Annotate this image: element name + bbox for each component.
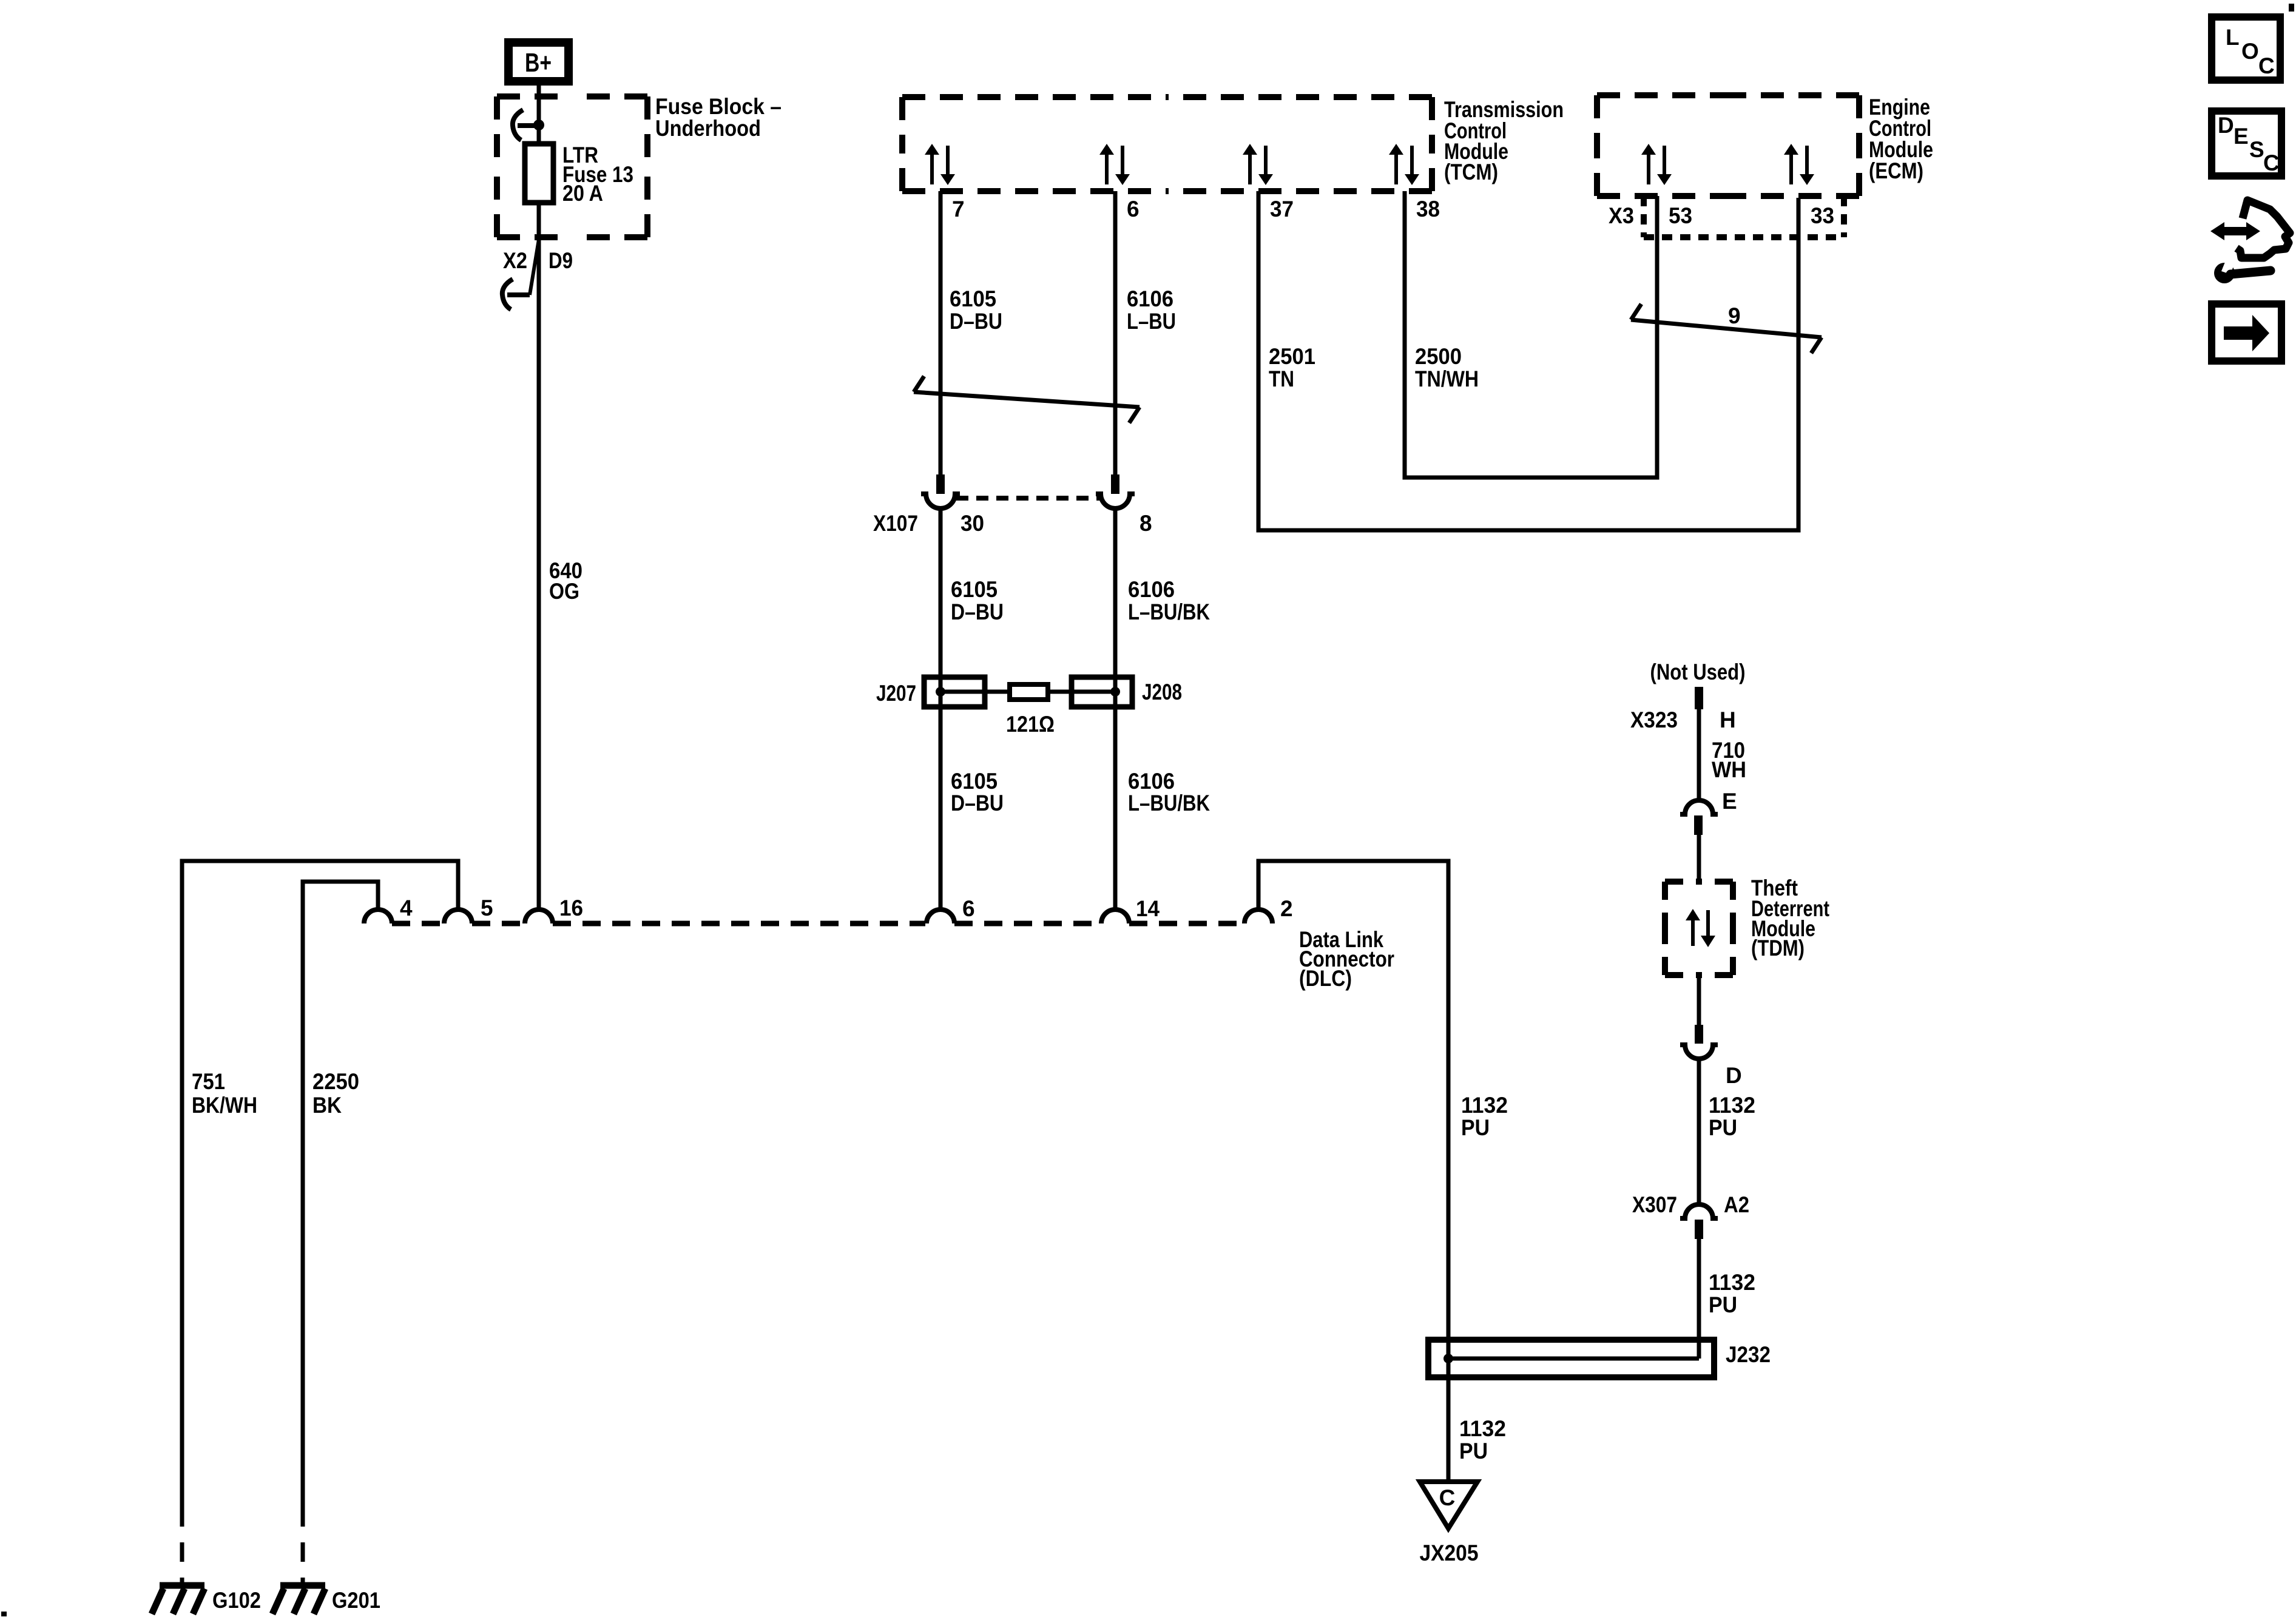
svg-text:(ECM): (ECM)	[1869, 158, 1923, 183]
label 6106 L-BU upper	[1127, 286, 1176, 334]
svg-text:L: L	[2226, 25, 2240, 50]
label 640 OG	[549, 558, 582, 604]
svg-text:5: 5	[481, 896, 493, 920]
svg-text:G102: G102	[212, 1588, 261, 1613]
label 6105 D-BU middle	[951, 577, 1004, 624]
svg-text:(TCM): (TCM)	[1444, 160, 1498, 184]
svg-text:O: O	[2241, 39, 2259, 64]
svg-text:H: H	[1720, 707, 1736, 732]
svg-text:(TDM): (TDM)	[1751, 936, 1805, 960]
ground G201	[272, 1585, 325, 1614]
svg-text:2501: 2501	[1269, 344, 1315, 369]
svg-text:20 A: 20 A	[562, 181, 603, 206]
svg-text:14: 14	[1136, 896, 1160, 921]
svg-text:J207: J207	[876, 681, 916, 706]
svg-text:D–BU: D–BU	[951, 599, 1004, 624]
TCM label	[1444, 97, 1564, 184]
svg-text:X2: X2	[503, 248, 527, 273]
label 1132 PU right upper	[1709, 1093, 1755, 1140]
label 2250 BK	[312, 1069, 359, 1118]
connector X107 left half pin 30	[921, 474, 960, 508]
wire 1132 PU D to X307	[1697, 1059, 1701, 1204]
svg-text:X323: X323	[1630, 707, 1678, 732]
svg-text:7: 7	[952, 197, 965, 221]
svg-text:33: 33	[1811, 203, 1834, 228]
splice pack J208	[1072, 677, 1132, 707]
X307 labels	[1632, 1192, 1749, 1217]
svg-text:D9: D9	[549, 248, 573, 273]
svg-text:PU: PU	[1461, 1115, 1490, 1140]
label 6106 L-BU/BK middle	[1128, 577, 1210, 624]
svg-text:30: 30	[961, 511, 984, 536]
svg-text:B+: B+	[525, 48, 552, 78]
DLC pin 4 bump	[364, 910, 392, 923]
svg-text:4: 4	[400, 896, 413, 920]
label 710 WH	[1712, 738, 1746, 782]
wire 6105 D-BU TCM pin 7 to X107	[939, 191, 943, 474]
splice pack J207	[924, 677, 985, 707]
ECM connector X3 dotted box	[1644, 196, 1844, 237]
connector X107 right half pin 8	[1096, 474, 1135, 508]
DLC pin labels	[400, 896, 1293, 921]
wire 2500 TN/WH TCM pin 38 to ECM pin 53	[1405, 191, 1657, 478]
TCM dashed module box	[902, 97, 1432, 191]
DLC pin 6 bump	[927, 910, 954, 923]
svg-text:6: 6	[962, 896, 975, 921]
fuse block label	[655, 94, 782, 141]
TDM dashed module box	[1665, 882, 1733, 975]
TCM pin 6 arrows	[1099, 144, 1130, 185]
svg-text:JX205: JX205	[1420, 1541, 1479, 1565]
label 751 BK/WH	[192, 1069, 257, 1118]
svg-text:2250: 2250	[312, 1069, 359, 1094]
legend wrench	[2214, 259, 2271, 283]
svg-text:6105: 6105	[951, 769, 998, 794]
label 1132 PU upper left	[1461, 1093, 1508, 1140]
svg-text:37: 37	[1270, 197, 1294, 221]
TCM pin 7 arrows	[925, 144, 955, 185]
svg-text:C: C	[1439, 1485, 1456, 1510]
svg-text:D–BU: D–BU	[950, 309, 1002, 334]
svg-text:6106: 6106	[1127, 286, 1173, 311]
wire 2250 BK DLC pin 4 to G201	[303, 882, 378, 1507]
ECM pin 53 arrows	[1641, 144, 1672, 185]
TDM arrows	[1686, 909, 1715, 947]
svg-text:8: 8	[1140, 511, 1152, 536]
svg-text:6: 6	[1127, 197, 1140, 221]
X323 terminal H male pin	[1695, 687, 1703, 709]
svg-text:53: 53	[1669, 203, 1692, 228]
legend DESC box	[2212, 111, 2281, 176]
svg-text:L–BU/BK: L–BU/BK	[1128, 791, 1210, 815]
svg-text:38: 38	[1416, 197, 1440, 221]
label 1132 PU right lower	[1709, 1270, 1755, 1317]
bus hook terminal	[513, 110, 539, 140]
svg-text:TN: TN	[1269, 366, 1294, 391]
label 6105 D-BU upper	[950, 286, 1002, 334]
svg-text:C: C	[2258, 53, 2275, 78]
svg-text:PU: PU	[1709, 1292, 1737, 1317]
svg-text:2500: 2500	[1415, 344, 1462, 369]
X3 pin labels	[1609, 203, 1834, 228]
label 6105 D-BU lower	[951, 769, 1004, 815]
terminating resistor 121 ohm	[940, 684, 1115, 737]
svg-text:E: E	[1722, 789, 1737, 814]
legend hand double arrow icon	[2210, 222, 2260, 240]
fuse LTR Fuse 13 20 A	[525, 144, 553, 203]
svg-text:D: D	[2218, 113, 2234, 138]
wire 6105 D-BU X107 to DLC pin 6	[939, 508, 943, 910]
label 2500 TN/WH	[1415, 344, 1479, 391]
battery B+ feed terminal	[508, 42, 569, 81]
ground lead dashed G102	[180, 1507, 184, 1584]
DLC dashed connector line	[392, 921, 1244, 927]
svg-text:16: 16	[559, 896, 583, 920]
wire B+ to fuse block	[537, 81, 541, 144]
svg-text:(Not Used): (Not Used)	[1650, 660, 1746, 684]
svg-text:D–BU: D–BU	[951, 791, 1004, 815]
wire 1132 PU X307 to J232	[1697, 1239, 1701, 1359]
svg-text:Fuse Block –: Fuse Block –	[655, 94, 782, 119]
svg-text:A2: A2	[1724, 1192, 1749, 1217]
svg-text:J208: J208	[1142, 680, 1182, 704]
DLC pin 14 bump	[1101, 910, 1129, 923]
in-line harness triangle C JX205	[1420, 1482, 1477, 1528]
svg-text:1132: 1132	[1709, 1270, 1755, 1295]
svg-text:121Ω: 121Ω	[1006, 712, 1055, 737]
ECM dashed module box	[1597, 95, 1859, 196]
wire 6106 L-BU/BK X107 to DLC pin 14	[1113, 508, 1118, 910]
connector E dome and pin	[1680, 800, 1718, 835]
X107 link dashed	[956, 496, 1099, 501]
svg-text:L–BU/BK: L–BU/BK	[1128, 599, 1210, 624]
label 6106 L-BU/BK lower	[1128, 769, 1210, 815]
wire TDM to connector D	[1697, 975, 1701, 1025]
TDM label	[1751, 876, 1829, 960]
svg-text:WH: WH	[1712, 757, 1746, 782]
svg-text:C: C	[2263, 150, 2280, 175]
fuse value label	[562, 143, 633, 206]
wire 6106 L-BU TCM pin 6 to X107	[1113, 191, 1118, 474]
harness break slash 9	[1631, 304, 1822, 353]
svg-text:1132: 1132	[1709, 1093, 1755, 1118]
ECM pin 33 arrows	[1784, 144, 1814, 185]
label 1132 PU bottom	[1459, 1416, 1506, 1463]
svg-text:6105: 6105	[951, 577, 998, 602]
TCM pin labels	[952, 197, 1440, 221]
ground lead dashed G201	[301, 1507, 305, 1584]
svg-text:X3: X3	[1609, 203, 1634, 228]
wire 2501 TN TCM pin 37 to ECM pin 33	[1258, 191, 1798, 530]
ECM label	[1869, 95, 1933, 183]
svg-text:6106: 6106	[1128, 769, 1175, 794]
twisted pair break slash	[914, 376, 1140, 423]
svg-text:L–BU: L–BU	[1127, 309, 1176, 334]
fuse block underhood dashed box	[497, 96, 647, 237]
svg-text:G201: G201	[332, 1588, 380, 1613]
label 2501 TN	[1269, 344, 1315, 391]
svg-text:1132: 1132	[1461, 1093, 1508, 1118]
svg-text:S: S	[2249, 137, 2264, 162]
connector X2 pin D9 in-line terminal	[502, 240, 573, 309]
DLC pin 16 bump	[525, 910, 553, 923]
DLC label	[1299, 927, 1394, 991]
svg-text:751: 751	[192, 1069, 225, 1094]
wire 1132 PU DLC pin 2 to JX205	[1258, 861, 1448, 1482]
wire E to TDM	[1697, 835, 1701, 882]
svg-text:BK: BK	[312, 1093, 342, 1118]
svg-text:1132: 1132	[1459, 1416, 1506, 1441]
DLC pin 2 bump	[1244, 910, 1272, 923]
connector D pin and cup	[1680, 1025, 1718, 1059]
svg-text:OG: OG	[549, 579, 579, 604]
TCM pin 38 arrows	[1389, 144, 1419, 185]
svg-text:TN/WH: TN/WH	[1415, 366, 1479, 391]
svg-text:9: 9	[1728, 303, 1741, 328]
X107 labels	[873, 511, 1152, 536]
svg-text:2: 2	[1280, 896, 1293, 921]
svg-text:6105: 6105	[950, 286, 996, 311]
splice pack J232	[1428, 1340, 1714, 1377]
svg-text:E: E	[2234, 124, 2249, 149]
svg-text:(DLC): (DLC)	[1299, 966, 1352, 991]
wire 640 OG fuse to DLC pin 16	[537, 237, 541, 910]
TCM pin 37 arrows	[1243, 144, 1273, 185]
page artifact mark top right	[2289, 4, 2294, 12]
legend LOC box	[2212, 17, 2280, 80]
svg-text:6106: 6106	[1128, 577, 1175, 602]
svg-text:PU: PU	[1709, 1115, 1737, 1140]
wire 751 BK/WH DLC pin 5 to G102	[182, 861, 458, 1507]
connector X307 pin A2	[1680, 1204, 1718, 1239]
page artifact dot bottom left	[1, 1612, 7, 1616]
svg-text:X307: X307	[1632, 1192, 1677, 1217]
legend hand outline	[2237, 200, 2290, 258]
svg-text:Underhood: Underhood	[655, 116, 761, 141]
wire 710 WH	[1697, 709, 1701, 800]
svg-text:PU: PU	[1459, 1439, 1488, 1463]
DLC pin 5 bump	[444, 910, 472, 923]
legend forward arrow box	[2212, 304, 2281, 361]
svg-text:BK/WH: BK/WH	[192, 1093, 257, 1118]
bus junction dot	[533, 120, 544, 130]
ground G102	[152, 1585, 204, 1614]
svg-text:J232: J232	[1726, 1342, 1771, 1367]
X323 labels	[1630, 707, 1736, 732]
svg-text:X107: X107	[873, 511, 918, 536]
svg-text:D: D	[1726, 1063, 1742, 1088]
